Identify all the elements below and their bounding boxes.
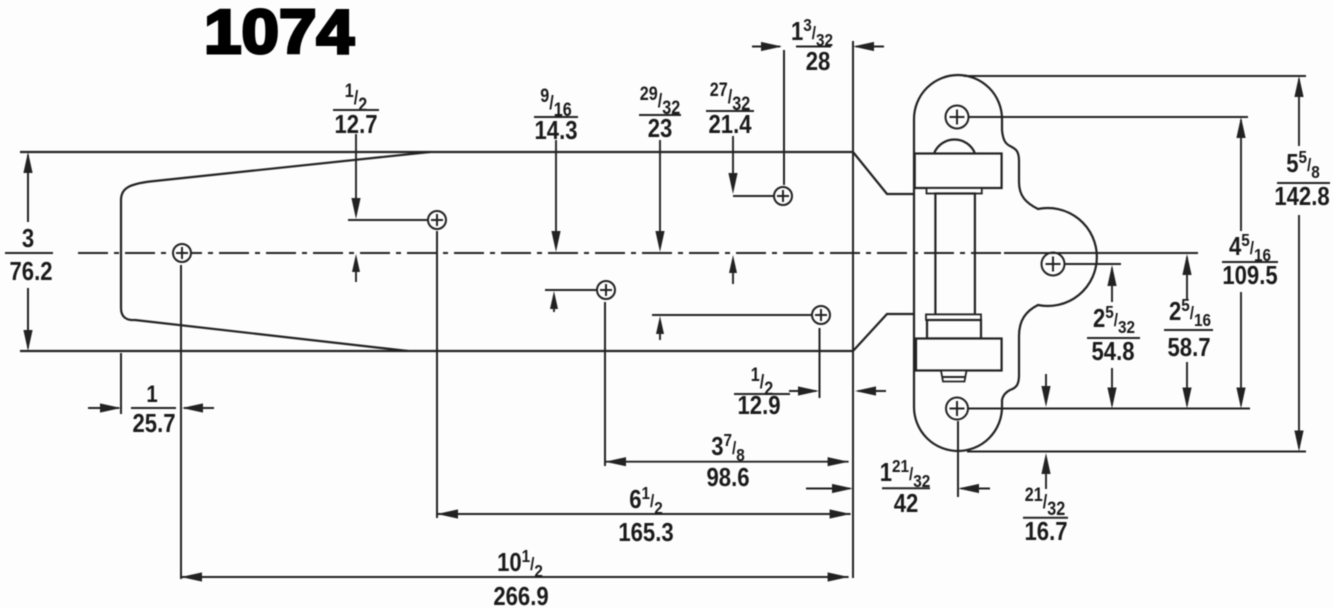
- dimension 1/2-12.9 label: [738, 364, 781, 421]
- bottom collar: [927, 320, 981, 339]
- leader line top hole: [969, 116, 1248, 118]
- svg-text:25/32: 25/32: [1093, 302, 1135, 337]
- svg-text:23: 23: [648, 114, 673, 143]
- dimension 4-5/16-109.5 lines: [1236, 117, 1245, 409]
- screw hole top leaf: [946, 106, 969, 129]
- hinge leaf plate: [914, 75, 1097, 451]
- dimension 1-21/32-42 label: [880, 456, 931, 519]
- screw hole middle leaf: [1042, 253, 1065, 276]
- svg-text:266.9: 266.9: [493, 582, 548, 608]
- extension line neck right edge: [852, 41, 854, 578]
- extension line leaf bottom: [967, 451, 1306, 453]
- svg-text:55/8: 55/8: [1286, 147, 1320, 182]
- svg-text:16.7: 16.7: [1025, 517, 1068, 546]
- svg-text:1: 1: [146, 380, 157, 407]
- svg-text:28: 28: [806, 47, 831, 76]
- dimension 1/25.7 label: [133, 380, 176, 438]
- dimension 4-5/16-109.5 label: [1222, 230, 1278, 291]
- extension line hole bottom: [957, 421, 959, 497]
- svg-text:109.5: 109.5: [1222, 261, 1277, 290]
- dimension 29/32-23 label: [639, 83, 681, 144]
- dimension 3/76.2 lines: [23, 152, 32, 351]
- leader line bottom hole: [969, 408, 1251, 410]
- svg-text:21.4: 21.4: [709, 110, 753, 139]
- bottom knuckle: [916, 339, 1002, 371]
- screw hole bottom leaf: [946, 398, 968, 420]
- strap neck bottom: [853, 314, 914, 351]
- svg-text:3: 3: [22, 224, 34, 253]
- svg-text:58.7: 58.7: [1168, 333, 1211, 362]
- dimension 1/2-12.7 label: [333, 80, 379, 140]
- top washer: [927, 188, 982, 194]
- dimension 27/32-21.4 label: [706, 79, 754, 140]
- strap neck top: [853, 152, 914, 194]
- dimension 1-3/32-28 label: [791, 15, 833, 77]
- dimension 5-5/8-142.8 label: [1274, 147, 1330, 212]
- svg-text:13/32: 13/32: [791, 15, 833, 50]
- dimension 21/32-16.7 label: [1023, 484, 1068, 547]
- dimension 5-5/8-142.8 lines: [1294, 76, 1303, 452]
- screw hole H5: [774, 187, 792, 205]
- svg-text:29/32: 29/32: [640, 83, 681, 119]
- strap top edge line: [20, 151, 853, 153]
- svg-text:21/32: 21/32: [1025, 484, 1066, 520]
- extension line hole H2: [436, 231, 438, 518]
- svg-text:25.7: 25.7: [133, 409, 176, 438]
- pin head arch: [934, 139, 975, 153]
- svg-text:14.3: 14.3: [535, 116, 578, 145]
- dimension 10-1/2-266.9 label: [493, 546, 548, 608]
- dimension 1/2-12.9 lines: [734, 328, 886, 398]
- dimension 3-7/8-98.6 lines: [605, 457, 849, 466]
- svg-text:12.7: 12.7: [335, 110, 378, 139]
- extension line strap left end: [120, 353, 122, 414]
- extension line hole H1: [180, 265, 182, 579]
- dimension 29/32-23 lines: [652, 140, 812, 340]
- leader line middle hole: [1065, 263, 1121, 265]
- svg-text:142.8: 142.8: [1274, 182, 1329, 211]
- strap bottom edge line: [20, 350, 853, 352]
- screw hole H2: [428, 211, 446, 229]
- dimension 2-5/32-54.8 lines: [1107, 265, 1116, 409]
- svg-text:1074: 1074: [204, 0, 355, 67]
- screw hole H3: [597, 281, 615, 299]
- svg-text:165.3: 165.3: [618, 518, 673, 547]
- extension line leaf top: [964, 75, 1306, 77]
- dimension 2-5/16-58.7 lines: [1182, 254, 1191, 409]
- dimension 21/32-16.7 lines: [1041, 374, 1050, 489]
- dimension 3/76.2 label: [5, 224, 53, 286]
- strap left tapered end: [121, 152, 430, 351]
- svg-text:12.9: 12.9: [738, 391, 781, 420]
- dimension 6-1/2-165.3 label: [618, 483, 673, 548]
- screw hole H4: [812, 306, 830, 324]
- centerline: [78, 252, 1002, 254]
- title 1074: [204, 0, 355, 67]
- dimension 10-1/2-266.9 lines: [181, 572, 849, 581]
- svg-text:9/16: 9/16: [540, 85, 572, 121]
- extension line centerline right: [1004, 252, 1198, 254]
- dimension 3-7/8-98.6 label: [707, 430, 750, 493]
- svg-text:37/8: 37/8: [711, 430, 745, 465]
- dimension 1-3/32-28 lines: [752, 42, 884, 51]
- bottom washer: [926, 314, 981, 320]
- screw hole H1: [173, 244, 191, 262]
- svg-text:25/16: 25/16: [1169, 295, 1211, 330]
- top knuckle: [915, 154, 1002, 189]
- svg-text:101/2: 101/2: [497, 546, 543, 581]
- dimension 27/32-21.4 lines: [728, 136, 774, 284]
- dimension 2-5/16-58.7 label: [1164, 295, 1213, 363]
- svg-text:54.8: 54.8: [1092, 337, 1135, 366]
- pin tip: [941, 371, 967, 382]
- extension line hole H3: [604, 302, 606, 466]
- svg-text:76.2: 76.2: [10, 257, 53, 286]
- svg-text:121/32: 121/32: [880, 456, 931, 491]
- svg-text:45/16: 45/16: [1229, 230, 1271, 265]
- dimension 1-21/32-42 lines: [806, 484, 990, 493]
- dimension 2-5/32-54.8 label: [1087, 302, 1140, 367]
- svg-text:42: 42: [894, 489, 919, 518]
- dimension 9/16-14.3 lines: [545, 140, 597, 312]
- dimension 6-1/2-165.3 lines: [437, 509, 851, 518]
- hinge pin barrel: [935, 194, 975, 315]
- extension line hole H5: [783, 50, 785, 185]
- dimension 1/25.7 lines: [88, 403, 214, 412]
- dimension 1/2-12.7 lines: [348, 134, 428, 282]
- svg-text:98.6: 98.6: [707, 463, 750, 492]
- svg-text:27/32: 27/32: [710, 79, 751, 115]
- svg-text:61/2: 61/2: [629, 483, 663, 518]
- dimension 9/16-14.3 label: [534, 85, 578, 146]
